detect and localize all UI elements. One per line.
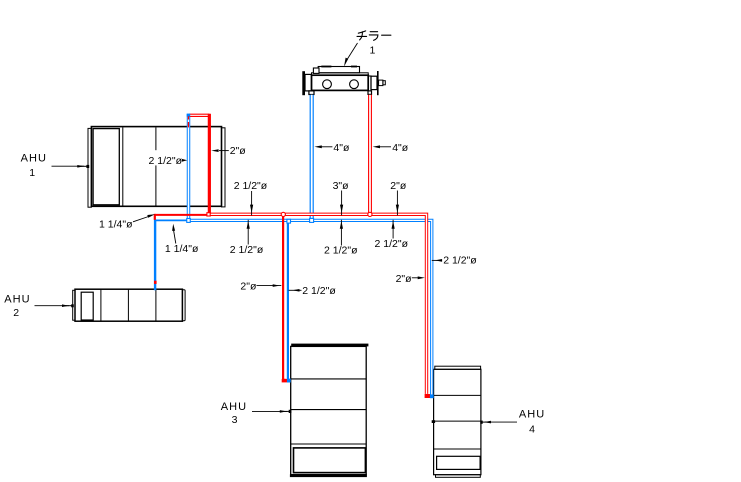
svg-text:2 1/2"ø: 2 1/2"ø xyxy=(375,238,409,250)
svg-text:AHU: AHU xyxy=(221,401,247,413)
svg-text:2 1/2"ø: 2 1/2"ø xyxy=(234,180,268,192)
svg-text:AHU: AHU xyxy=(4,293,30,305)
svg-text:2: 2 xyxy=(13,307,19,319)
svg-text:3"ø: 3"ø xyxy=(333,180,350,192)
svg-text:2 1/2"ø: 2 1/2"ø xyxy=(443,254,477,266)
svg-text:AHU: AHU xyxy=(519,408,545,420)
svg-text:3: 3 xyxy=(232,414,238,426)
svg-text:4: 4 xyxy=(529,424,535,436)
svg-text:1: 1 xyxy=(370,45,376,57)
svg-text:2"ø: 2"ø xyxy=(396,273,413,285)
svg-text:AHU: AHU xyxy=(21,152,47,164)
svg-text:2 1/2"ø: 2 1/2"ø xyxy=(324,244,358,256)
svg-text:2 1/2"ø: 2 1/2"ø xyxy=(230,244,264,256)
svg-text:4"ø: 4"ø xyxy=(333,142,350,154)
svg-text:1 1/4"ø: 1 1/4"ø xyxy=(165,243,199,255)
svg-text:2"ø: 2"ø xyxy=(230,145,247,157)
svg-text:2"ø: 2"ø xyxy=(390,180,407,192)
svg-text:2 1/2"ø: 2 1/2"ø xyxy=(149,155,183,167)
svg-text:2 1/2"ø: 2 1/2"ø xyxy=(302,285,336,297)
svg-text:1 1/4"ø: 1 1/4"ø xyxy=(99,218,133,230)
svg-text:4"ø: 4"ø xyxy=(392,142,409,154)
svg-text:1: 1 xyxy=(29,167,35,179)
svg-text:2"ø: 2"ø xyxy=(240,280,257,292)
